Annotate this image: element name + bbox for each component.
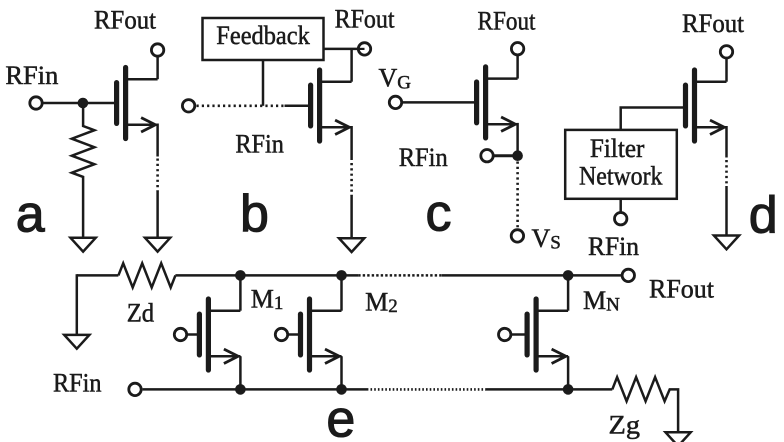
node RFout terminal (c): [511, 43, 523, 55]
wire drain MN: [567, 275, 570, 310]
svg-text:RFin: RFin: [399, 143, 448, 172]
transistor (d): [686, 70, 727, 141]
node VG terminal (c): [389, 96, 401, 108]
svg-text:M2: M2: [365, 288, 398, 318]
wire drain M2: [340, 275, 343, 310]
wire stub into RFout terminal (b): [358, 48, 365, 50]
svg-text:c: c: [426, 185, 452, 243]
wire top rail left (e): [77, 274, 119, 277]
ground (b): [339, 238, 364, 252]
wire gate to filter box (d): [621, 108, 683, 131]
junction dot M2 source: [336, 384, 347, 395]
ground (a right): [145, 238, 170, 252]
wire box to RFin terminal (d): [619, 199, 622, 212]
svg-text:VS: VS: [532, 224, 561, 254]
wire source dotted (d): [725, 160, 728, 186]
wire source M2: [340, 356, 343, 389]
wire source upper (b): [350, 126, 353, 160]
wire RFin to source (c): [494, 154, 515, 157]
wire drain to RFout (c): [516, 55, 519, 79]
svg-text:RFout: RFout: [649, 275, 715, 304]
svg-text:d: d: [749, 187, 778, 245]
junction dot (a): [78, 98, 89, 109]
junction dot MN drain: [563, 270, 574, 281]
svg-text:RFout: RFout: [682, 9, 745, 38]
wire source upper (a): [156, 124, 159, 157]
node RFout terminal (b): [358, 43, 370, 55]
junction dot M1 source: [235, 384, 246, 395]
wire left drop to ground (e): [76, 274, 79, 335]
ground (e left): [64, 335, 89, 349]
wire feedback box to RFout (b): [324, 48, 358, 51]
svg-text:a: a: [16, 186, 45, 244]
node RFin terminal (c): [481, 150, 493, 162]
svg-text:RFin: RFin: [235, 129, 284, 158]
node RFin terminal (a): [30, 97, 42, 109]
svg-text:b: b: [240, 185, 269, 243]
wire VG to gate (c): [402, 101, 474, 104]
transistor MN: [527, 299, 568, 370]
wire source upper (d): [725, 126, 728, 158]
wire to gate (b): [285, 105, 309, 108]
junction dot M1 drain: [235, 270, 246, 281]
svg-text:VG: VG: [379, 64, 412, 94]
wire top rail mid (e): [175, 274, 358, 277]
junction dot MN source: [563, 384, 574, 395]
svg-text:Network: Network: [579, 161, 663, 190]
node gate terminal M1: [174, 328, 186, 340]
wire gate MN: [512, 333, 525, 336]
svg-text:MN: MN: [583, 286, 620, 316]
filter network box (d): [565, 130, 677, 199]
node RFout terminal (a): [151, 44, 163, 56]
resistor Zg: [612, 377, 678, 432]
junction dot (c): [512, 150, 523, 161]
wire source dotted (b): [350, 163, 353, 196]
wire bottom rail left (e): [143, 388, 369, 391]
svg-text:Filter: Filter: [590, 134, 645, 163]
svg-text:Feedback: Feedback: [216, 21, 309, 50]
node gate terminal M2: [275, 328, 287, 340]
node RFout terminal (e): [622, 269, 634, 281]
wire feedback box to gate (b): [262, 60, 265, 106]
svg-text:RFin: RFin: [588, 232, 639, 261]
svg-text:RFout: RFout: [94, 5, 157, 34]
wire RFin dotted (b): [197, 105, 285, 108]
wire bottom rail right (e): [486, 388, 612, 391]
wire bottom rail dotted (e): [371, 388, 487, 391]
transistor M2: [301, 299, 342, 370]
node gate terminal MN: [499, 328, 511, 340]
wire RFin to gate (a): [43, 102, 115, 105]
transistor (a): [117, 68, 158, 139]
wire drain to RFout (a): [156, 56, 159, 79]
node VS terminal (c): [511, 230, 523, 242]
wire source M1: [239, 356, 242, 389]
node RFout terminal (d): [720, 46, 732, 58]
svg-text:RFin: RFin: [5, 61, 58, 90]
svg-text:RFout: RFout: [335, 4, 396, 33]
wire source lower (b): [350, 196, 353, 238]
feedback box (b): [203, 18, 324, 60]
junction dot M2 drain: [336, 270, 347, 281]
wire dotted to VS (c): [516, 162, 519, 229]
svg-text:RFout: RFout: [478, 6, 537, 35]
transistor (c): [477, 67, 518, 138]
transistor M1: [199, 299, 240, 370]
node RFin terminal (d): [615, 213, 627, 225]
wire source lower (d): [725, 186, 728, 236]
wire drain to RFout (b): [350, 49, 353, 82]
svg-text:M1: M1: [251, 285, 284, 315]
svg-text:Zd: Zd: [127, 299, 155, 328]
wire top rail dashed (e): [358, 274, 442, 277]
transistor (b): [311, 70, 352, 141]
wire gate M1: [187, 333, 197, 336]
wire top rail right (e): [442, 274, 621, 277]
ground (a left): [71, 238, 96, 252]
wire source lower (a): [156, 192, 159, 238]
wire gate M2: [288, 333, 298, 336]
resistor Zd: [118, 263, 175, 287]
wire source MN: [567, 356, 570, 389]
wire drain to RFout (d): [725, 58, 728, 81]
wire source (c): [516, 123, 519, 156]
svg-text:Zg: Zg: [609, 411, 641, 440]
svg-text:RFin: RFin: [53, 369, 102, 398]
wire drain M1: [239, 275, 242, 310]
wire source dotted (a): [156, 159, 159, 192]
resistor (a): [72, 103, 95, 238]
node RFin terminal (b): [182, 100, 194, 112]
ground (e right): [666, 432, 691, 442]
ground (d): [714, 236, 739, 250]
svg-text:e: e: [326, 391, 355, 442]
node RFin terminal (e): [129, 383, 141, 395]
